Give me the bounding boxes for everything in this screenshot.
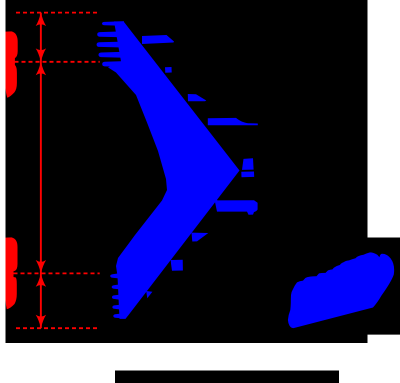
dimension extension dashed line 1 bbox=[16, 12, 100, 14]
scale bar bbox=[115, 371, 339, 383]
apex rectangle R1 bbox=[242, 158, 254, 170]
detached feather G1 bbox=[214, 197, 258, 215]
wingtip nub N2 bbox=[112, 285, 119, 290]
arrowhead down at y=328.2 bbox=[36, 315, 46, 328]
wingtip nub N3 bbox=[112, 295, 120, 300]
dimension line (vertical) bbox=[40, 13, 42, 329]
detached feather F1 bbox=[142, 35, 174, 44]
detached feather H1 bbox=[171, 260, 183, 271]
dimension extension dashed line 4 bbox=[16, 327, 100, 329]
primary feather P1 (top wingtip) bbox=[102, 21, 124, 26]
primary feather P3 bbox=[97, 42, 123, 48]
detached feather H2 bbox=[146, 291, 152, 298]
arrowhead up at y=273.4 bbox=[36, 273, 46, 286]
arrowhead down at y=273.4 bbox=[36, 260, 46, 273]
primary feather P4 bbox=[99, 52, 126, 58]
primary feather P2 bbox=[97, 31, 122, 37]
dimension extension dashed line 2 bbox=[15, 61, 100, 63]
wingtip nub N5 bbox=[113, 313, 122, 318]
detached feather F3 bbox=[188, 94, 207, 101]
detached feather F2 bbox=[165, 67, 172, 73]
apex rectangle R2 bbox=[241, 172, 254, 178]
detached feather F4 bbox=[208, 118, 258, 125]
red label glyph B (cropped, lower left) bbox=[6, 237, 18, 309]
wingtip nub N4 bbox=[112, 305, 121, 310]
primary feather P5 bbox=[102, 61, 128, 67]
wing body (extended wing chevron) bbox=[108, 21, 240, 319]
red label glyph A (cropped, upper left) bbox=[6, 31, 18, 97]
dimension extension dashed line 3 bbox=[14, 272, 100, 274]
arrowhead up at y=12.6 bbox=[36, 13, 46, 26]
arrowhead down at y=61.8 bbox=[36, 48, 46, 61]
folded wing bbox=[288, 252, 394, 328]
arrowhead up at y=61.8 bbox=[36, 62, 46, 75]
detached feather G2 bbox=[192, 233, 209, 242]
wingtip nub N1 (bottom tip) bbox=[110, 273, 118, 278]
